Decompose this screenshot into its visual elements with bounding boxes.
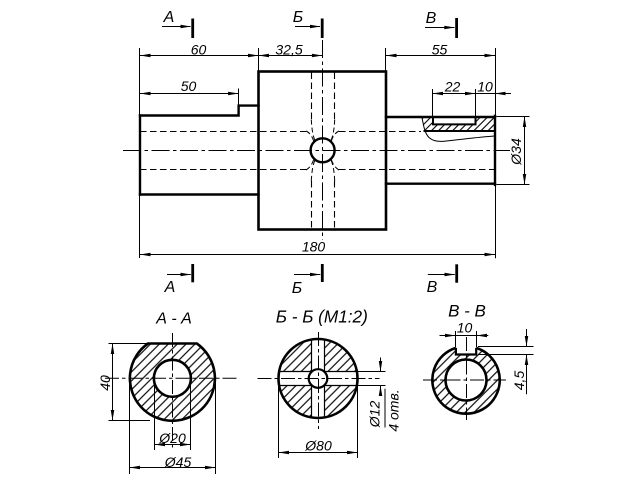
dim Ø34 [497, 117, 530, 185]
axis centerline [123, 150, 510, 152]
section marker B top [295, 19, 322, 39]
keyway outline [456, 348, 476, 355]
svg-text:А: А [163, 9, 175, 26]
dim 50 [140, 89, 239, 106]
flange front hole circle [311, 138, 335, 162]
dim 40 [109, 344, 151, 421]
dim Ø20 [155, 380, 191, 450]
centerlines V-V [423, 337, 506, 420]
section marker A top [162, 19, 193, 39]
svg-text:32,5: 32,5 [275, 42, 302, 58]
dim 32,5 [259, 54, 270, 58]
bore hidden line top [140, 131, 421, 133]
svg-text:55: 55 [432, 42, 448, 58]
svg-text:Ø20: Ø20 [158, 430, 186, 446]
dim 22 and 10 [433, 89, 512, 116]
hole intersection curves [306, 120, 339, 182]
dim 55 [386, 48, 496, 116]
centerlines A-A [105, 333, 239, 449]
svg-text:Ø34: Ø34 [508, 138, 524, 166]
centerlines B-B [258, 332, 380, 429]
svg-text:10: 10 [457, 320, 473, 336]
section marker A bottom [167, 264, 193, 282]
left shaft outline [140, 106, 259, 195]
section marker V bottom [428, 264, 457, 282]
keyway outline [433, 117, 476, 125]
flange cross-hole hidden lines [312, 73, 335, 229]
dim 180 [140, 186, 496, 259]
slot edge lines [279, 340, 357, 418]
svg-text:10: 10 [477, 79, 493, 95]
svg-text:Ø12: Ø12 [367, 401, 383, 429]
local section break line [422, 118, 495, 142]
svg-text:Б - Б (М1:2): Б - Б (М1:2) [276, 307, 368, 327]
dim Ø80 [279, 380, 358, 458]
section marker B bottom [294, 264, 322, 282]
svg-text:В: В [426, 10, 437, 27]
svg-text:50: 50 [181, 78, 197, 94]
svg-text:40: 40 [97, 375, 113, 391]
local section hatch [422, 118, 495, 132]
slot voids [279, 372, 357, 386]
inner bore outline [154, 360, 191, 397]
hatched body [130, 344, 215, 421]
svg-text:Ø80: Ø80 [304, 438, 332, 454]
bore edge in local section [424, 130, 496, 132]
outer outline [130, 344, 215, 421]
label Ø12 / 4 holes [384, 389, 386, 428]
hatched disc [279, 339, 358, 418]
svg-text:22: 22 [444, 79, 461, 95]
flange vertical centerline [322, 40, 324, 240]
svg-text:Ø45: Ø45 [164, 454, 192, 470]
keyway void [456, 338, 476, 355]
svg-text:4 отв.: 4 отв. [386, 389, 402, 431]
section marker V top [425, 18, 457, 38]
svg-text:180: 180 [302, 239, 326, 255]
right shaft outline [386, 116, 495, 185]
svg-text:4,5: 4,5 [511, 371, 527, 391]
outer circle with keyway gap [432, 348, 499, 414]
dim 4,5 [478, 329, 534, 394]
svg-text:Б: Б [293, 9, 303, 26]
keyway void [433, 116, 476, 125]
svg-text:Б: Б [292, 280, 302, 297]
center hole outline [309, 369, 328, 388]
hatched ring [432, 346, 499, 413]
svg-text:А: А [164, 279, 176, 296]
svg-text:А - А: А - А [155, 311, 192, 328]
bore hidden line bottom [140, 169, 495, 171]
svg-text:60: 60 [191, 42, 207, 58]
outer circle outline [279, 339, 358, 418]
dim 10 [440, 331, 489, 347]
dim Ø12 [356, 358, 386, 395]
flange outline [259, 72, 387, 230]
bore outline [446, 360, 487, 401]
dim Ø45 [130, 380, 216, 474]
svg-text:В - В: В - В [448, 302, 486, 321]
dim 60 [140, 48, 323, 115]
svg-text:В: В [427, 279, 438, 296]
